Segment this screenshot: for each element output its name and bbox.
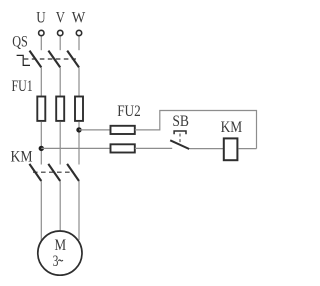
node junction pole1 control tap (39, 146, 44, 151)
wire control upper right (135, 111, 257, 149)
svg-text:M: M (55, 237, 67, 254)
wire pole2 lower (59, 181, 61, 231)
contactor KM blade pole1 (29, 164, 41, 181)
wire pole3 mid2 (78, 122, 80, 165)
pushbutton SB plunger dashed (179, 134, 181, 145)
switch QS blade pole1 (30, 51, 42, 68)
svg-text:KM: KM (221, 119, 243, 136)
terminal U (39, 30, 44, 35)
contactor KM blade pole2 (48, 164, 60, 181)
terminal V (58, 30, 63, 35)
svg-text:KM: KM (11, 149, 33, 166)
pushbutton SB blade (170, 140, 189, 149)
wire control lower right (190, 148, 224, 150)
wire pole1 mid2 (40, 122, 42, 165)
wire pole2 mid2 (59, 122, 61, 165)
motor M circle (38, 231, 82, 275)
wire coil right (239, 148, 257, 150)
switch QS blade pole2 (48, 51, 60, 68)
fuse FU1 pole2 (56, 97, 64, 121)
svg-text:FU2: FU2 (117, 103, 141, 120)
terminal W (76, 30, 81, 35)
switch QS handle hook (17, 55, 30, 65)
fuse FU2 lower (111, 144, 135, 152)
svg-text:QS: QS (12, 34, 28, 51)
wire pole1 upper (40, 37, 42, 51)
contactor KM linkage dashed (33, 171, 74, 173)
svg-text:FU1: FU1 (12, 78, 33, 95)
wire pole2 upper (59, 37, 61, 51)
wire control lower middle (135, 147, 172, 149)
wire control lower left (41, 147, 109, 149)
fuse FU1 pole3 (75, 97, 83, 121)
switch QS blade pole3 (67, 51, 79, 68)
switch QS linkage dashed (24, 58, 76, 60)
svg-text:W: W (72, 9, 86, 26)
svg-text:SB: SB (172, 113, 189, 130)
svg-text:U: U (36, 9, 46, 26)
contactor KM blade pole3 (67, 164, 79, 181)
pushbutton SB cap (174, 131, 186, 134)
wire pole2 mid1 (59, 67, 61, 95)
wire pole1 lower (40, 181, 42, 245)
wire pole3 lower (78, 181, 80, 240)
wire pole1 mid1 (40, 67, 42, 95)
motor label tilde (58, 260, 63, 261)
node junction pole3 control tap (76, 127, 81, 132)
svg-text:V: V (56, 9, 66, 26)
contactor coil KM (224, 138, 238, 160)
wire pole3 upper (78, 37, 80, 51)
wire pole3 mid1 (78, 67, 80, 95)
fuse FU1 pole1 (37, 97, 45, 121)
wire control upper left (79, 129, 110, 131)
fuse FU2 upper (111, 126, 135, 134)
svg-text:3: 3 (53, 253, 59, 270)
